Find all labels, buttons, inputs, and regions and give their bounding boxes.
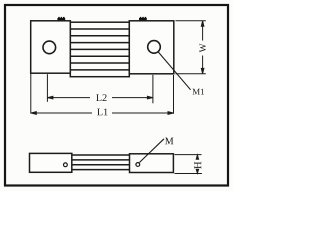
dimension L1 line with arrows — [31, 112, 174, 115]
label M — [165, 138, 173, 145]
label M1 — [193, 89, 204, 95]
dimension H label — [194, 162, 201, 169]
dimension W label — [200, 43, 206, 52]
dimension L2 label — [96, 94, 106, 101]
border frame — [5, 5, 228, 186]
terminal screw T2 (right block top) — [139, 17, 147, 21]
right end block (top view) — [129, 21, 174, 74]
dimension W extension lines — [176, 21, 206, 74]
hole in left block — [43, 41, 56, 54]
dimension L2 line with arrows — [47, 96, 152, 99]
dimension L1 label — [97, 109, 107, 116]
dimension H extension lines — [175, 155, 202, 174]
terminal screw T1 (left block top) — [57, 17, 65, 21]
left end block (top view) — [31, 21, 71, 73]
strip stack (side view) — [72, 155, 130, 170]
resistor strip bundle (top view) — [70, 22, 129, 76]
side hole in left block (side view) — [64, 163, 68, 167]
side hole M in right block (side view) — [136, 163, 140, 167]
leader line to M — [139, 139, 164, 163]
dimension L2 extension lines — [47, 74, 152, 103]
leader line to M1 — [158, 52, 190, 90]
dimension H line with arrows — [196, 155, 198, 173]
right end block (side view) — [130, 154, 174, 173]
dimension L1 extension lines — [31, 74, 174, 114]
left end block (side view) — [30, 153, 72, 172]
hole M1 in right block — [148, 41, 161, 54]
dimension W line with arrows — [201, 21, 204, 74]
